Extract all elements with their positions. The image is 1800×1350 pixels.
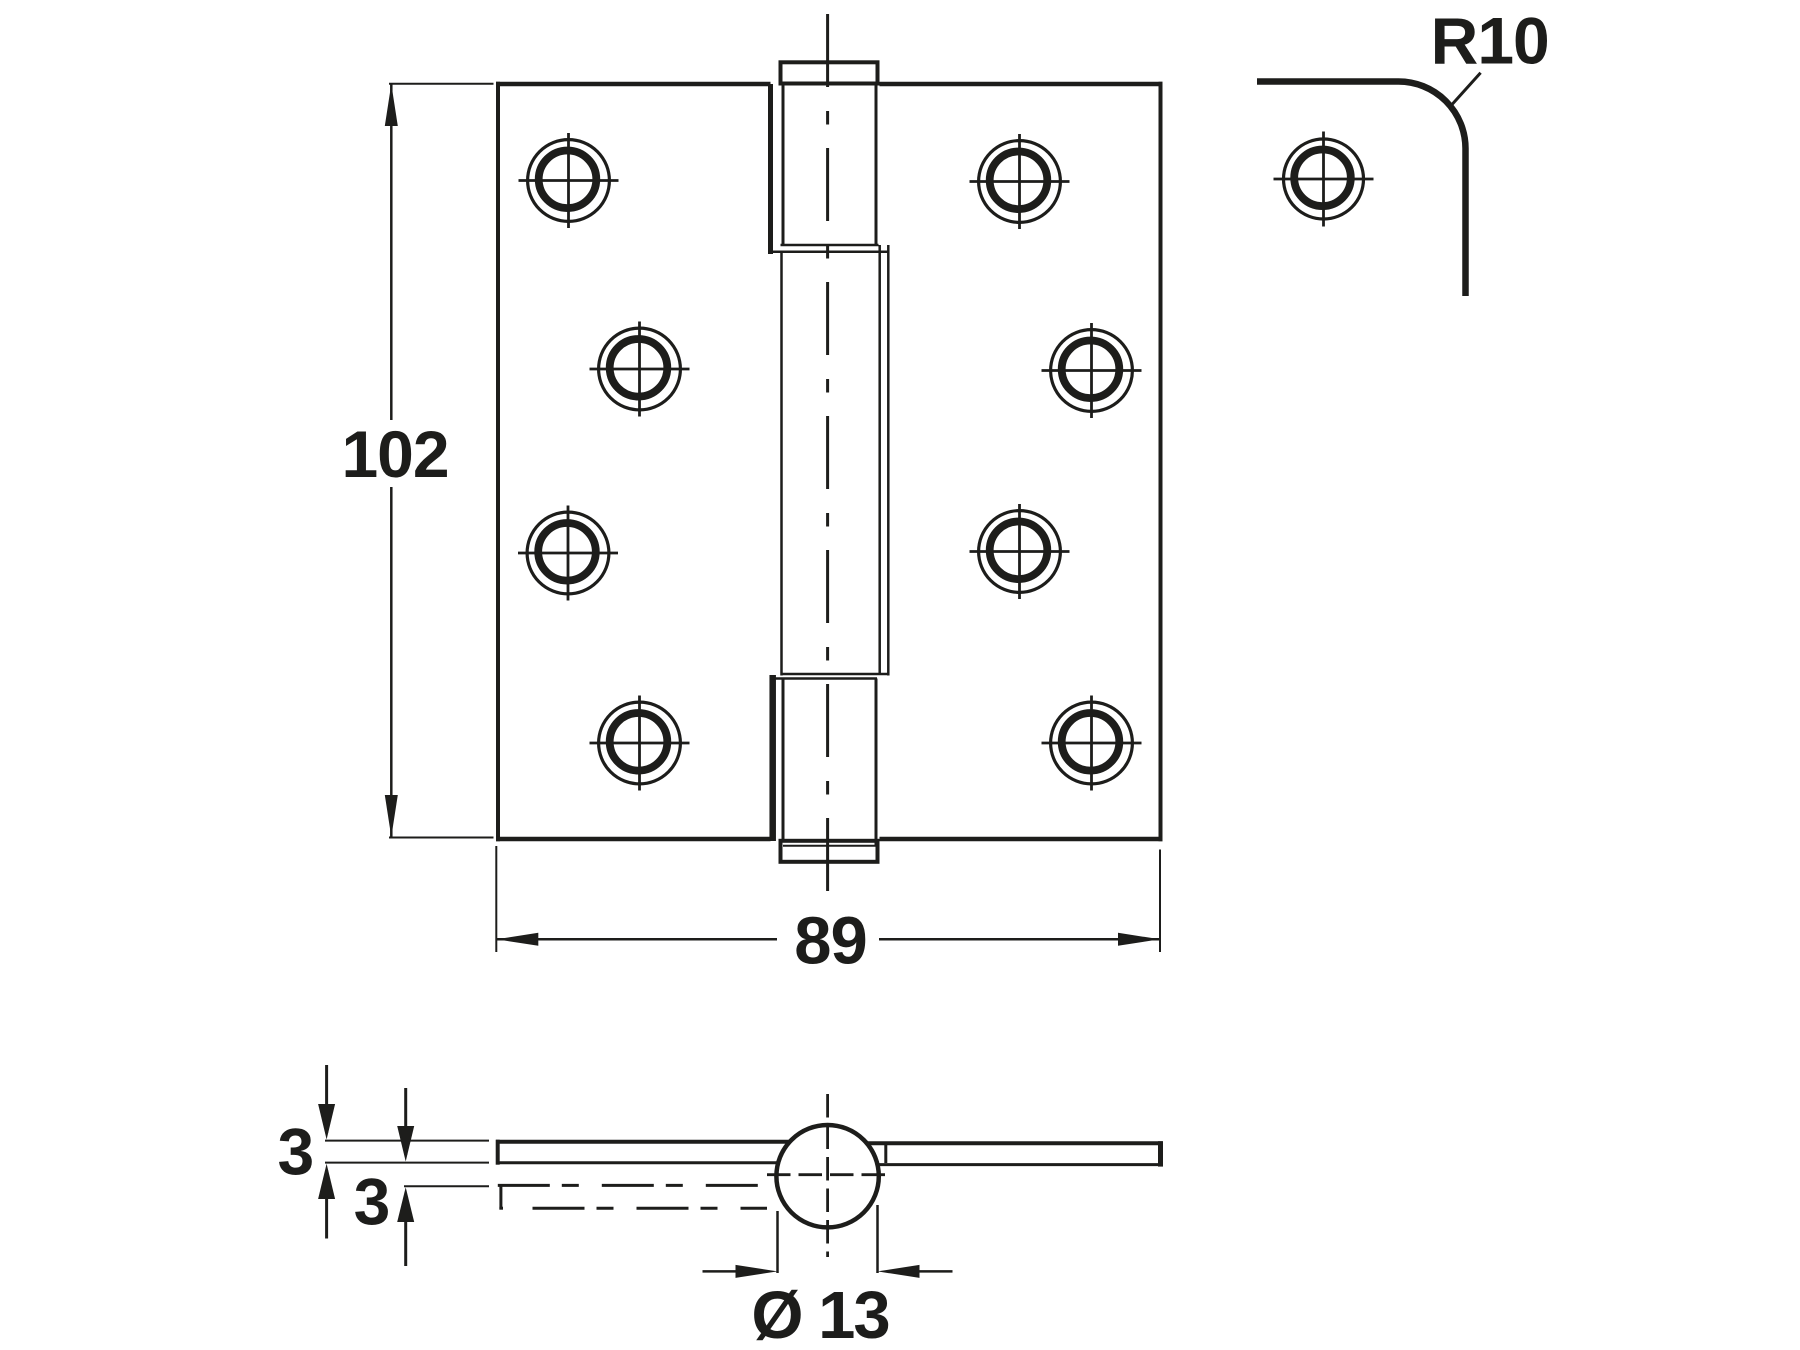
dimension diameter 13 extension lines — [776, 1211, 779, 1273]
dimension 3 lower arrows — [404, 1088, 407, 1155]
pin centerline — [826, 14, 829, 906]
knuckle barrel circle — [776, 1125, 878, 1227]
lower knuckle — [783, 679, 876, 846]
phantom leaf left end — [499, 1184, 502, 1210]
svg-text:102: 102 — [341, 417, 448, 491]
phantom leaf top edge — [498, 1184, 758, 1187]
hinge pin bottom cap — [781, 841, 878, 862]
screw hole L4 — [590, 696, 690, 791]
dimension 102 line — [390, 84, 393, 420]
phantom leaf bottom edge — [533, 1207, 768, 1210]
dimension 3 upper arrows — [325, 1065, 328, 1133]
screw hole L1 — [519, 133, 619, 228]
side view right plate — [866, 1141, 1163, 1166]
screw hole detail — [1274, 132, 1374, 227]
svg-text:Ø 13: Ø 13 — [751, 1278, 888, 1350]
dimension 89 arrowheads — [496, 933, 538, 946]
screw hole L2 — [590, 322, 690, 417]
corner radius detail outline R10 — [1257, 82, 1466, 297]
left leaf plate — [496, 82, 773, 842]
dimension 3 lower extension line — [404, 1185, 489, 1187]
dimension 102 arrowheads — [385, 84, 398, 126]
screw hole R3 — [970, 504, 1070, 599]
middle knuckle section — [772, 245, 889, 679]
dimension 102 extension lines — [389, 83, 494, 85]
leader line R10 — [1452, 73, 1481, 105]
dimension 89 extension lines — [495, 846, 497, 952]
svg-text:89: 89 — [794, 904, 867, 979]
svg-text:3: 3 — [277, 1115, 314, 1189]
screw hole R2 — [1042, 323, 1142, 418]
screw hole R4 — [1042, 696, 1142, 791]
dimension 3 upper extension lines — [325, 1140, 489, 1142]
upper knuckle — [771, 85, 888, 252]
hinge pin top cap — [781, 62, 878, 83]
barrel horizontal centerline — [767, 1173, 888, 1176]
side view upper plate — [496, 1140, 790, 1165]
screw hole L3 — [518, 506, 618, 601]
dimension diameter 13 line — [703, 1270, 737, 1273]
barrel vertical centerline — [826, 1094, 829, 1257]
dimension 89 line — [496, 938, 777, 941]
right leaf plate — [880, 82, 1163, 842]
screw hole R1 — [970, 134, 1070, 229]
svg-text:R10: R10 — [1431, 3, 1549, 77]
svg-text:3: 3 — [354, 1165, 391, 1239]
dimension diameter 13 arrowheads — [736, 1265, 778, 1278]
